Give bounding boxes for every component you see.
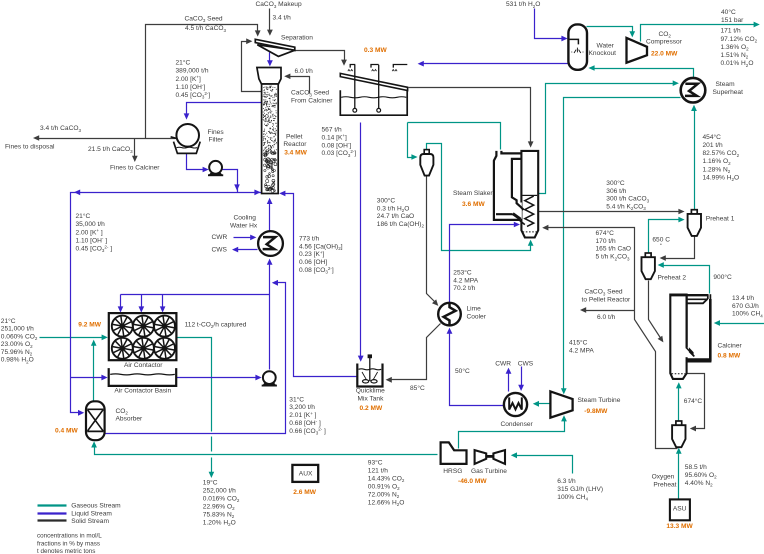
svg-text:251,000 t/h: 251,000 t/h [1,326,34,333]
svg-text:171 t/h: 171 t/h [721,28,741,35]
svg-text:CWS: CWS [518,361,534,368]
svg-text:Water Hx: Water Hx [230,222,258,229]
svg-text:2.00 [K+ ]: 2.00 [K+ ] [76,228,103,236]
svg-text:0.4 MW: 0.4 MW [55,428,78,435]
svg-text:4.40% N2: 4.40% N2 [685,480,713,488]
svg-text:31°C: 31°C [289,395,304,403]
svg-text:0.3 t/h H2O: 0.3 t/h H2O [377,206,410,214]
svg-text:201 t/h: 201 t/h [703,142,723,149]
svg-text:0.8 MW: 0.8 MW [718,353,741,360]
svg-text:4.2 MPA: 4.2 MPA [453,277,478,284]
svg-text:531 t/h H2O: 531 t/h H2O [506,1,540,9]
svg-text:253°C: 253°C [453,268,472,276]
svg-text:3.4 MW: 3.4 MW [284,150,307,157]
svg-text:23.00% O2: 23.00% O2 [1,341,33,349]
svg-text:3.4 t/h: 3.4 t/h [273,14,292,21]
svg-text:773 t/h: 773 t/h [299,235,319,242]
svg-text:HRSG: HRSG [443,468,462,475]
svg-text:Steam Slaker: Steam Slaker [453,190,493,197]
svg-text:13.3 MW: 13.3 MW [666,523,693,530]
svg-text:5 t/h K2CO3: 5 t/h K2CO3 [596,254,630,262]
svg-text:2.6 MW: 2.6 MW [293,489,316,496]
svg-text:Gas Turbine: Gas Turbine [471,468,507,475]
svg-text:21°C: 21°C [76,212,91,220]
svg-text:415°C: 415°C [569,338,588,346]
svg-text:14.99% H2O: 14.99% H2O [703,174,740,182]
svg-text:72.00% N2: 72.00% N2 [368,491,400,499]
svg-text:6.3 t/h: 6.3 t/h [557,478,576,485]
svg-text:Fines to Calciner: Fines to Calciner [110,165,160,172]
svg-text:50°C: 50°C [455,367,470,375]
svg-text:100% CH4: 100% CH4 [557,494,588,502]
svg-text:0.060% CO2: 0.060% CO2 [1,333,38,341]
svg-text:14.43% CO2: 14.43% CO2 [368,475,405,483]
svg-text:CWR: CWR [212,234,228,241]
svg-text:1.51% N2: 1.51% N2 [721,52,749,60]
svg-text:2.01 [K+ ]: 2.01 [K+ ] [289,411,316,419]
svg-text:Mix Tank: Mix Tank [358,395,385,402]
svg-text:151 bar: 151 bar [721,17,744,24]
svg-text:82.57% CO2: 82.57% CO2 [703,150,740,158]
svg-text:Knockout: Knockout [589,50,617,57]
svg-text:75.96% N2: 75.96% N2 [1,349,33,357]
svg-text:Oxygen: Oxygen [652,473,675,480]
svg-text:900°C: 900°C [713,273,732,281]
svg-text:1.28% N2: 1.28% N2 [703,166,731,174]
svg-text:650 C: 650 C [652,237,670,244]
svg-text:-9.8MW: -9.8MW [584,408,608,415]
svg-text:Fines: Fines [208,129,225,136]
svg-text:21°C: 21°C [176,59,191,67]
svg-text:75.83% N2: 75.83% N2 [203,511,235,519]
svg-text:t denotes metric tons: t denotes metric tons [37,548,95,554]
svg-text:Solid Stream: Solid Stream [71,518,109,525]
svg-text:Calciner: Calciner [718,342,743,349]
svg-text:1.10 [OH- ]: 1.10 [OH- ] [76,236,108,244]
svg-text:4.2 MPA: 4.2 MPA [569,347,594,354]
svg-text:0.2 MW: 0.2 MW [360,405,383,412]
svg-text:300 t/h CaCO3: 300 t/h CaCO3 [606,196,649,204]
svg-text:165 t/h CaO: 165 t/h CaO [596,246,632,253]
svg-text:100% CH4: 100% CH4 [732,311,763,319]
svg-text:From Calciner: From Calciner [291,97,333,104]
svg-text:CWS: CWS [212,246,228,253]
svg-text:1.16% O2: 1.16% O2 [703,158,732,166]
svg-text:58.5 t/h: 58.5 t/h [685,464,707,471]
svg-text:1.36% O2: 1.36% O2 [721,44,750,52]
svg-text:95.60% O2: 95.60% O2 [685,472,717,480]
svg-text:3.4 t/h CaCO3: 3.4 t/h CaCO3 [40,125,81,133]
svg-text:186 t/h Ca(OH)2: 186 t/h Ca(OH)2 [377,221,425,229]
svg-text:24.7 t/h CaO: 24.7 t/h CaO [377,213,414,220]
svg-text:300°C: 300°C [606,179,625,187]
svg-text:CaCO3 Makeup: CaCO3 Makeup [256,1,302,9]
svg-text:0.06 [OH]: 0.06 [OH] [299,259,327,266]
svg-text:Filter: Filter [209,137,224,144]
svg-text:6.0 t/h: 6.0 t/h [597,314,616,321]
svg-text:40°C: 40°C [721,8,736,16]
svg-text:CWR: CWR [495,361,511,368]
svg-text:9.2 MW: 9.2 MW [78,322,101,329]
svg-text:0.016% CO2: 0.016% CO2 [203,495,240,503]
svg-text:93°C: 93°C [368,458,383,466]
svg-text:Gaseous Stream: Gaseous Stream [71,503,121,510]
svg-text:21°C: 21°C [1,317,16,325]
svg-text:Quicklime: Quicklime [356,388,385,395]
svg-text:concentrations in mol/L: concentrations in mol/L [37,533,102,540]
svg-text:Steam: Steam [716,81,736,88]
svg-text:Fines to disposal: Fines to disposal [5,144,55,151]
svg-text:1.10 [OH-]: 1.10 [OH-] [176,83,206,91]
svg-text:Liquid Stream: Liquid Stream [71,510,112,517]
svg-text:35,000 t/h: 35,000 t/h [76,221,106,228]
svg-text:0.01% H2O: 0.01% H2O [721,60,754,68]
svg-text:Water: Water [597,42,615,49]
svg-text:306 t/h: 306 t/h [606,188,626,195]
svg-text:Reactor: Reactor [283,141,307,148]
svg-text:389,000 t/h: 389,000 t/h [176,68,209,75]
svg-text:12.66% H2O: 12.66% H2O [368,499,405,507]
svg-text:567 t/h: 567 t/h [322,127,342,134]
svg-text:674°C: 674°C [596,229,615,237]
svg-text:1.20% H2O: 1.20% H2O [203,519,236,527]
svg-text:252,000 t/h: 252,000 t/h [203,487,236,494]
svg-text:Preheat 2: Preheat 2 [658,275,687,282]
svg-text:Pellet: Pellet [286,133,303,140]
svg-text:00.91% O2: 00.91% O2 [368,483,400,491]
svg-text:to Pellet Reactor: to Pellet Reactor [582,296,632,303]
svg-text:Air Contactor: Air Contactor [124,362,163,369]
svg-text:170 t/h: 170 t/h [596,238,616,245]
svg-text:Condenser: Condenser [501,421,534,428]
svg-text:0.68 [OH- ]: 0.68 [OH- ] [289,419,321,427]
svg-text:315 GJ/h (LHV): 315 GJ/h (LHV) [557,486,603,493]
svg-text:22.0 MW: 22.0 MW [651,50,678,57]
svg-text:5.4 t/h K2CO3: 5.4 t/h K2CO3 [606,204,646,212]
svg-text:fractions in % by mass: fractions in % by mass [37,540,100,547]
svg-text:6.0 t/h: 6.0 t/h [295,68,314,75]
svg-text:454°C: 454°C [703,133,722,141]
svg-text:121 t/h: 121 t/h [368,467,388,474]
svg-text:Cooler: Cooler [467,313,487,320]
svg-text:21.5 t/h CaCO3: 21.5 t/h CaCO3 [88,146,133,154]
svg-text:22.96% O2: 22.96% O2 [203,503,235,511]
svg-text:Superheat: Superheat [713,89,744,96]
svg-text:0.3 MW: 0.3 MW [364,47,387,54]
svg-text:Lime: Lime [467,306,482,313]
svg-text:Preheat: Preheat [653,481,676,488]
svg-text:AUX: AUX [299,470,313,477]
svg-text:ASU: ASU [673,506,687,513]
svg-text:Air Contactor Basin: Air Contactor Basin [114,388,171,395]
svg-text:300°C: 300°C [377,197,396,205]
svg-text:0.98% H2O: 0.98% H2O [1,357,34,365]
svg-text:3.6 MW: 3.6 MW [462,201,485,208]
svg-text:19°C: 19°C [203,478,218,486]
svg-text:13.4 t/h: 13.4 t/h [732,295,754,302]
svg-text:Absorber: Absorber [116,416,144,423]
svg-text:85°C: 85°C [410,384,425,392]
svg-text:670 GJ/h: 670 GJ/h [732,303,759,310]
svg-text:Cooling: Cooling [234,215,257,222]
svg-text:Compressor: Compressor [646,39,683,46]
svg-text:70.2 t/h: 70.2 t/h [453,285,475,292]
svg-text:Steam Turbine: Steam Turbine [578,397,621,404]
svg-text:112 t-CO2/h captured: 112 t-CO2/h captured [185,322,247,330]
svg-text:-46.0 MW: -46.0 MW [458,478,487,485]
svg-text:97.12% CO2: 97.12% CO2 [721,36,758,44]
svg-text:0.08 [OH-]: 0.08 [OH-] [322,141,352,149]
svg-text:Preheat 1: Preheat 1 [706,215,735,222]
svg-text:4.5 t/h CaCO3: 4.5 t/h CaCO3 [185,25,226,33]
svg-text:Separation: Separation [281,34,313,41]
svg-text:674°C: 674°C [684,397,703,405]
